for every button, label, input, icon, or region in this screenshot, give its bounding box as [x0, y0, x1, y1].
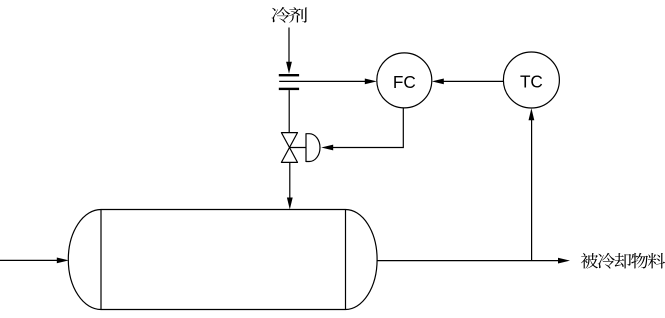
wire: FC output down then left to actuator: [333, 108, 403, 148]
arrow: into vessel top, pointing down: [287, 198, 293, 210]
wire: valve stem: [290, 147, 307, 149]
instrument circle TC (temperature controller): [503, 52, 559, 108]
wire: TC to FC: [443, 80, 503, 82]
arrow: into TC bottom, pointing up: [529, 108, 535, 120]
wire: coolant feed vertical line: [288, 28, 290, 65]
vessel E1: shell bottom line: [101, 309, 346, 311]
arrow: into FC left side, pointing right: [365, 79, 377, 85]
orifice plate FE: top bar: [279, 74, 299, 76]
wire: impulse line orifice to FC: [279, 80, 366, 82]
vessel E1: left elliptical head: [68, 210, 101, 310]
arrow: into vessel left head, pointing right: [57, 258, 69, 264]
vessel E1: left tangent line: [100, 210, 102, 310]
vessel E1: right elliptical head: [346, 210, 378, 310]
vessel E1: shell top line: [101, 209, 346, 211]
orifice plate FE: bottom bar: [279, 88, 299, 90]
arrow: into orifice, pointing down: [286, 62, 292, 74]
wire: valve outlet to vessel top: [289, 162, 291, 199]
wire: orifice to valve: [288, 90, 290, 133]
label: outlet text 被冷却物料: [581, 253, 665, 269]
arrow: into FC right side, pointing left: [432, 79, 444, 85]
control valve body (two triangles): [281, 133, 297, 163]
arrow: into actuator, pointing left: [321, 145, 333, 151]
valve actuator (D shape): [306, 133, 320, 162]
wire: process outlet line: [377, 260, 559, 262]
vessel E1: right tangent line: [345, 210, 347, 310]
wire: TC measurement line from outlet junction: [531, 119, 533, 261]
svg-text:TC: TC: [520, 72, 543, 92]
svg-text:FC: FC: [393, 72, 416, 92]
arrow: outlet end, pointing right: [558, 258, 570, 264]
label: coolant text 冷剂: [271, 7, 307, 23]
wire: process inlet line: [0, 259, 58, 261]
instrument circle FC (flow controller): [377, 53, 432, 108]
